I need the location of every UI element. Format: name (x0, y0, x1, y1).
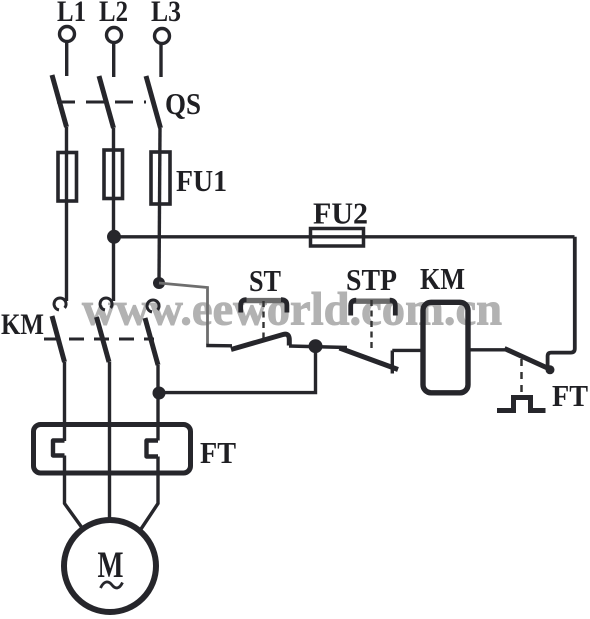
fuse FU1 pole 3 (151, 152, 170, 204)
thermal relay FT heater box (34, 425, 191, 474)
junction node A on L2 (107, 230, 121, 244)
FT thermal element symbol (497, 398, 546, 411)
switch QS pole 2 blade (99, 76, 114, 128)
label tilde AC (101, 582, 123, 588)
wire seal-in branch node C to node D (159, 346, 316, 392)
junction node B on L3 (153, 277, 165, 289)
STP fixed contact stub (391, 351, 394, 374)
wire L1 QS to KM contact (65, 127, 68, 301)
junction node C seal-in tap (309, 339, 323, 353)
svg-text:STP: STP (346, 262, 397, 297)
switch QS pole 1 blade (52, 75, 67, 127)
FT dashed stem (520, 359, 523, 393)
KM main contact pole 3 blade (145, 318, 158, 365)
contactor KM main contact pole 2 terminal hook (100, 298, 112, 310)
contactor KM main contact pole 3 terminal hook (147, 300, 159, 312)
pushbutton STP actuator cap bar (353, 299, 394, 304)
wire L2 terminal to QS (112, 43, 115, 78)
svg-text:KM: KM (1, 308, 44, 341)
pushbutton ST actuator cap bar (243, 298, 286, 303)
wire to ST fixed contact (206, 344, 232, 348)
fuse FU2 (311, 229, 364, 247)
svg-text:L3: L3 (151, 0, 181, 28)
ST cap left hook (241, 300, 247, 313)
svg-text:ST: ST (249, 263, 281, 298)
FT heater element pole 1 (53, 441, 65, 456)
wire pole3 blade to node D (156, 365, 159, 393)
thermal relay FT NC contact blade (505, 349, 549, 369)
svg-text:M: M (98, 545, 124, 586)
FT heater element pole 3 (147, 441, 159, 457)
pushbutton STP NC contact blade (340, 348, 399, 370)
svg-text:L1: L1 (57, 0, 86, 28)
fuse FU1 pole 2 (104, 150, 123, 199)
wire node B to ST left terminal (159, 283, 208, 345)
svg-text:FT: FT (552, 378, 588, 413)
motor M circle (64, 520, 156, 612)
wire node D into FT heater (156, 393, 159, 441)
wire L3 QS to node B (159, 128, 160, 283)
svg-text:FU1: FU1 (176, 163, 227, 198)
wire right side down to FT contact (548, 237, 575, 367)
FT blade tip blob (546, 365, 555, 374)
svg-text:QS: QS (165, 86, 201, 121)
wire pole2 blade to motor (108, 362, 111, 520)
wire pole1 heater to motor (65, 456, 82, 528)
wire KM coil to FT contact (468, 348, 506, 351)
wire L2 QS to KM contact (112, 128, 115, 301)
fuse FU1 pole 1 (58, 153, 77, 202)
contactor KM main contact pole 1 terminal hook (54, 298, 66, 310)
svg-text:L2: L2 (99, 0, 128, 28)
KM mechanical link dashed (44, 338, 154, 341)
contactor coil KM (423, 302, 468, 393)
STP cap right hook (390, 300, 396, 315)
QS mechanical link dashed (57, 101, 146, 104)
ST cap right hook (281, 300, 287, 313)
ST dashed stem (262, 301, 264, 340)
svg-text:FU2: FU2 (313, 196, 368, 231)
terminal L1 (60, 27, 75, 42)
terminal L3 (155, 29, 170, 44)
STP dashed stem (370, 300, 372, 351)
wire pole3 heater to motor (141, 457, 158, 530)
KM main contact pole 1 blade (52, 316, 65, 362)
wire L1 terminal to QS (65, 42, 68, 77)
pushbutton ST NO contact blade (231, 334, 289, 349)
terminal L2 (107, 28, 122, 43)
junction node D on L3 below KM (153, 387, 166, 400)
wire STP to KM coil (392, 349, 422, 352)
switch QS pole 3 blade (146, 76, 161, 128)
svg-text:FT: FT (200, 435, 236, 470)
wire ST to node C (289, 346, 347, 348)
wire L3 terminal to QS (159, 44, 162, 78)
wire pole1 blade to FT heater (63, 362, 66, 441)
KM main contact pole 2 blade (97, 317, 110, 362)
wire control top from node A to right side (114, 235, 575, 238)
STP cap left hook (351, 300, 357, 315)
svg-text:KM: KM (420, 261, 465, 296)
